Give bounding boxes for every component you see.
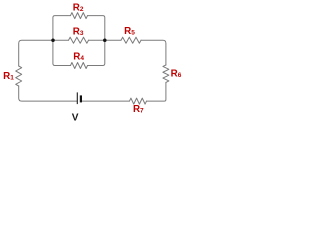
wire: top branch from R2 down right riser to node B bbox=[88, 16, 105, 41]
wire: middle rail from R5 to top-right corner and down bbox=[141, 40, 166, 65]
battery V negative plate (short thick) bbox=[80, 95, 82, 102]
svg-text:R2: R2 bbox=[73, 2, 84, 13]
wire: left rail upper segment with top-left corner bbox=[19, 40, 53, 66]
wire: middle rail from node B to R5 bbox=[105, 39, 121, 41]
wire: middle rail from node A to R3 bbox=[53, 39, 69, 41]
svg-text:R1: R1 bbox=[3, 71, 14, 82]
wire: right rail lower segment with bottom-right corner bbox=[147, 82, 166, 101]
wire: parallel-block left riser and top lead to R2 bbox=[53, 16, 71, 41]
svg-text:R5: R5 bbox=[124, 26, 135, 37]
resistor R2 body bbox=[71, 13, 88, 19]
resistor R1 body bbox=[16, 66, 22, 86]
svg-text:R4: R4 bbox=[73, 51, 84, 62]
wire: bottom rail from R7 to battery bbox=[82, 100, 130, 102]
resistor R4 body bbox=[71, 63, 88, 69]
node B junction dot bbox=[103, 38, 107, 42]
wire: middle rail from R3 to node B bbox=[89, 39, 105, 41]
resistor R7 body bbox=[130, 98, 147, 104]
svg-text:V: V bbox=[72, 112, 79, 123]
battery V positive plate (long thin) bbox=[76, 92, 78, 104]
svg-text:R3: R3 bbox=[73, 26, 84, 37]
node A junction dot bbox=[51, 38, 55, 42]
wire: bottom branch from R4 up right riser to node B bbox=[88, 40, 105, 65]
svg-text:R7: R7 bbox=[133, 104, 144, 115]
resistor R5 body bbox=[121, 37, 141, 43]
wire: bottom rail left segment with bottom-left corner bbox=[19, 86, 77, 101]
wire: parallel-block left riser down and lead to R4 bbox=[53, 40, 71, 65]
svg-text:R6: R6 bbox=[171, 68, 182, 79]
resistor R3 body bbox=[69, 37, 89, 43]
resistor R6 body bbox=[163, 65, 169, 82]
